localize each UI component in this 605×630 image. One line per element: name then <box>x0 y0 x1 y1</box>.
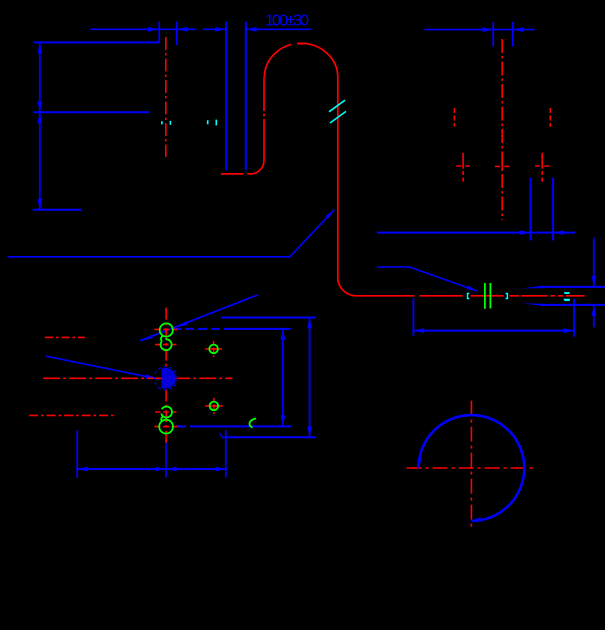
detail plate bottom inner edge <box>176 425 196 427</box>
pinch leader lower <box>540 304 605 306</box>
detail vertical dim x309.6 <box>309 318 311 438</box>
cable tie hook on detail <box>250 419 257 428</box>
loop circle C5 <box>161 407 172 418</box>
tube lower-left fillet <box>251 160 265 174</box>
dim line y232.6 <box>377 232 575 234</box>
long leader to tube bend <box>8 210 334 257</box>
bottom dim extension x166 <box>165 439 167 478</box>
cross hole right (542,166) <box>535 165 550 167</box>
tube horizontal dashed tail <box>510 295 585 297</box>
loop circle C1 <box>160 323 173 336</box>
right vertical dim x593.8 lower <box>593 305 595 327</box>
extension tick x512.8 <box>512 22 514 47</box>
loop tail C5-C6 <box>161 416 163 421</box>
extension line x574 <box>573 299 575 337</box>
pinch mark upper <box>564 292 570 294</box>
break tick pair right <box>207 120 209 124</box>
dim line y330.6 (tube straight length) <box>413 330 574 332</box>
tube horizontal run <box>356 295 503 297</box>
loop circle C6 <box>159 420 173 434</box>
small hole cross bottom (213.9,405.9) <box>205 405 223 407</box>
cross row y329.4 <box>154 328 178 330</box>
extension line x530.6 <box>530 178 532 241</box>
dim line segment before x225.7 <box>203 28 226 30</box>
arrowheads <box>148 27 159 32</box>
cross row y344.6 <box>155 344 177 346</box>
svg-text:100±30: 100±30 <box>265 13 309 30</box>
pinch leader upper <box>540 286 605 288</box>
left chain reference line y42.4 <box>33 41 159 43</box>
extension line x226.2 (tube end) <box>225 22 227 171</box>
bend radius arc (bottom right view) <box>419 415 525 521</box>
arc end arrowhead left <box>417 459 422 468</box>
detail fillet arc <box>220 432 228 438</box>
arc view centerline horizontal <box>407 467 535 469</box>
clip mark right (bracket) <box>506 294 508 299</box>
extension line x553.1 <box>552 178 554 241</box>
loop circle C2 <box>161 339 172 350</box>
detail centerline h y378.3 long <box>43 377 232 379</box>
tube elbow <box>338 278 357 296</box>
leader1 to top hole <box>140 295 258 341</box>
bottom dim extension x77.2 <box>76 430 78 478</box>
clip mark left (bracket) <box>468 294 470 299</box>
detail centerline h y337.4 <box>45 336 85 338</box>
cross row y426.6 <box>154 426 178 428</box>
tube upper arch <box>264 43 337 77</box>
extension line x413.4 <box>412 298 414 336</box>
dim line extension under 100±30 text <box>246 28 312 30</box>
right vertical dim x593.8 upper <box>593 238 595 287</box>
bottom dim line y469 <box>77 468 226 470</box>
red dash vertical x550.3 <box>549 108 551 127</box>
cross hole left (463,166) <box>456 165 469 167</box>
centerline x165.8 upper <box>165 37 167 157</box>
pinch mark lower <box>563 299 570 301</box>
leader2 to center hole <box>46 356 159 379</box>
dashed circle around half disc <box>154 367 177 390</box>
small hole cross top (213.6,348.9) <box>205 348 222 350</box>
clamp bar 2 <box>489 283 491 309</box>
cross row y412 <box>155 411 177 413</box>
break tick pair at centerline <box>161 121 163 124</box>
centerline x165.8 detail <box>165 308 167 445</box>
left chain reference line y209.8 <box>33 209 82 211</box>
hole circle C4 <box>210 402 219 411</box>
dim line top right <box>425 29 535 31</box>
detail plate top outer edge <box>221 317 316 319</box>
detail plate bottom outer edge <box>221 436 316 438</box>
red dash vertical x454.4 <box>453 108 455 127</box>
loop tail C1-C2 <box>161 336 163 341</box>
clip leader to tube clamp <box>377 267 477 291</box>
center hole filled half disc <box>161 368 176 389</box>
cross hole mid (502,166.4) <box>495 165 510 167</box>
tube left vertical <box>263 77 265 160</box>
extension tick x176.7 <box>176 22 178 45</box>
tube right vertical <box>337 77 339 277</box>
detail centerline h y415.4 <box>29 414 114 416</box>
left chain reference line y112.3 <box>33 111 149 113</box>
detail vertical dim x282.9 <box>282 329 284 426</box>
tube bottom-left end segment <box>221 173 251 175</box>
detail plate top inner edge (dashed then solid) <box>172 328 232 330</box>
extension line x245.8 (tube end) <box>245 22 247 171</box>
bottom dim extension x225.8 <box>225 430 227 477</box>
extension tick x159 <box>158 22 160 43</box>
arc end arrowhead bottom <box>472 517 481 522</box>
left vertical dim line x39.8 <box>39 42 41 209</box>
arc view centerline vertical <box>470 401 472 528</box>
hole circle C3 <box>209 345 218 354</box>
clamp bar 1 <box>484 283 486 309</box>
centerline x502.2 <box>501 39 503 220</box>
tube break double slash <box>329 100 345 112</box>
extension tick x493.2 <box>492 22 494 47</box>
dim line top chain (left segment with text leader) <box>90 28 196 30</box>
